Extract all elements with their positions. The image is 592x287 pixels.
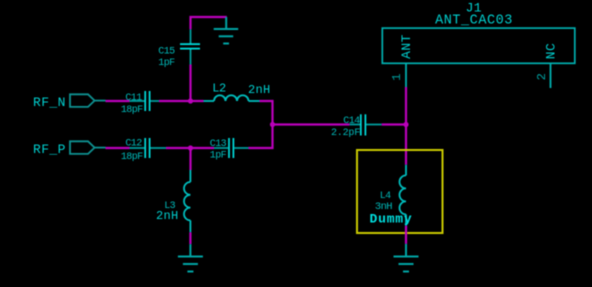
junction node B (270, 122, 275, 127)
wire L2 to node B column (249, 101, 273, 148)
ground bottom right (394, 244, 419, 272)
svg-text:C14: C14 (343, 116, 360, 127)
inductor L3 2nH (156, 170, 190, 232)
port RF_P (33, 141, 106, 157)
svg-text:ANT_CAC03: ANT_CAC03 (435, 14, 513, 29)
junction node C (188, 145, 193, 150)
svg-text:2nH: 2nH (248, 83, 271, 97)
wire RF_N port to C11 (106, 100, 130, 102)
capacitor C12 18pF (121, 138, 166, 163)
pin 2 NC (535, 43, 558, 88)
svg-text:18pF: 18pF (121, 105, 143, 116)
wire L3 to ground (189, 232, 191, 244)
wire C15 bottom to node A (189, 65, 191, 102)
svg-text:RF_N: RF_N (33, 95, 66, 110)
capacitor C11 18pF (121, 91, 159, 116)
svg-text:C13: C13 (210, 139, 227, 150)
wire C15 top to ground (191, 17, 227, 29)
svg-text:2nH: 2nH (156, 209, 179, 223)
wire pin 1 to ANT node and L4 (405, 87, 407, 165)
capacitor C15 1pF (158, 29, 200, 69)
svg-text:NC: NC (544, 43, 559, 59)
svg-text:C12: C12 (125, 138, 142, 149)
svg-text:18pF: 18pF (121, 152, 143, 163)
svg-text:2.2pF: 2.2pF (331, 128, 360, 139)
junction node A (188, 98, 193, 103)
wire node A to L2 (191, 100, 204, 102)
wire node C to C13 (191, 147, 215, 149)
svg-text:1: 1 (390, 74, 404, 81)
junction ANT node (403, 122, 408, 127)
wire node B to C14 (273, 123, 350, 125)
wire C12 to node C (166, 147, 192, 149)
svg-text:1pF: 1pF (158, 58, 175, 69)
connector J1 ANT_CAC03 body (382, 1, 575, 64)
svg-text:Dummy: Dummy (370, 211, 413, 226)
highlight box Dummy (357, 150, 443, 233)
inductor L2 2nH (204, 82, 271, 101)
svg-text:RF_P: RF_P (33, 142, 66, 157)
wire C14 to ANT node (382, 123, 406, 125)
wire L3 top from node C (189, 148, 191, 170)
pin 1 ANT (390, 34, 414, 88)
capacitor C13 1pF (210, 138, 249, 162)
ground top (214, 17, 239, 44)
ground bottom left (178, 244, 203, 271)
port RF_N (33, 94, 106, 110)
svg-text:C15: C15 (158, 46, 175, 57)
svg-text:L2: L2 (212, 82, 226, 96)
wire C11 to node A (159, 100, 192, 102)
svg-text:C11: C11 (125, 93, 142, 104)
svg-text:1pF: 1pF (210, 151, 227, 162)
svg-text:2: 2 (535, 73, 549, 80)
wire L4 to ground (405, 226, 407, 244)
capacitor C14 2.2pF (331, 114, 382, 139)
svg-text:ANT: ANT (399, 34, 414, 59)
inductor L4 3nH Dummy (370, 165, 413, 227)
wire RF_P port to C12 (106, 147, 130, 149)
